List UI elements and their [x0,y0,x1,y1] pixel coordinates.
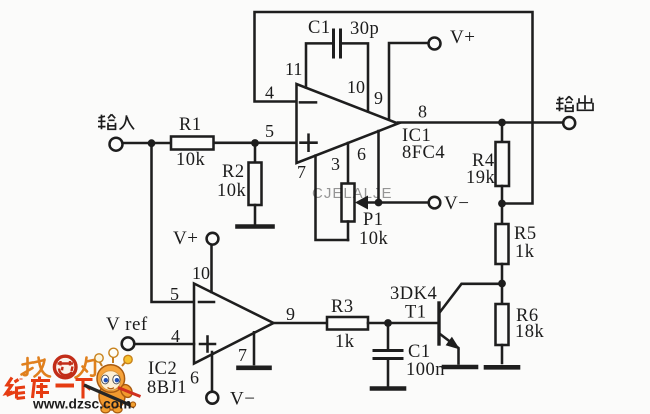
IC2 minus input symbol [199,301,214,304]
IC1 pin 3 wire to P1 top [347,143,350,184]
svg-text:10: 10 [347,77,365,97]
svg-text:R1: R1 [179,115,202,135]
transistor T1 emitter arrow head [446,337,460,350]
watermark logo: red badge circle [54,356,76,378]
svg-text:R3: R3 [331,297,354,317]
svg-text:C1: C1 [308,18,331,38]
resistor R3 [327,317,368,330]
transistor T1 collector [440,284,502,312]
terminal V- (IC2) [206,392,218,404]
IC1 pin 6 wire down to wiper node [377,131,380,203]
IC1 minus input symbol [300,101,316,104]
wire pin 9 to V+ [389,43,427,119]
svg-text:10k: 10k [217,181,247,201]
node R5/R6/collector junction [498,280,506,288]
svg-text:3DK4: 3DK4 [390,284,437,304]
svg-text:8BJ1: 8BJ1 [147,378,187,398]
svg-text:V−: V− [444,193,469,214]
svg-text:CJELALJE: CJELALJE [312,185,393,202]
svg-text:R5: R5 [514,224,537,244]
svg-text:7: 7 [297,162,306,182]
ground of capacitor C1 100n [372,386,404,391]
IC1 plus input symbol [301,141,317,144]
node output/R4 junction [498,119,506,127]
potentiometer P1 body [342,184,355,222]
svg-text:4: 4 [265,83,274,103]
terminal output [563,117,575,129]
resistor R5 [501,204,504,225]
svg-text:V−: V− [230,389,255,410]
svg-text:T1: T1 [405,303,427,323]
resistor R2 [254,143,257,163]
svg-text:4: 4 [171,326,180,346]
svg-text:9: 9 [286,304,295,324]
svg-text:V ref: V ref [106,314,148,335]
svg-text:30p: 30p [350,19,379,39]
watermark logo: outlined text 片 [76,358,97,378]
wire feedback loop top: from R4/R5 node up and across to pin 4 [255,12,533,204]
wire R3 to base node [368,322,438,325]
svg-text:V+: V+ [450,27,475,48]
wire from input junction down to IC2 pin5 [152,143,195,302]
ground of IC2 pin 7 [239,365,270,370]
IC2 pin 6 wire to V- [211,352,214,391]
svg-text:R2: R2 [222,162,245,182]
op-amp U2 IC2 triangle [194,284,274,364]
svg-text:C1: C1 [408,342,431,362]
IC2 pin 4 wire from V ref [136,343,195,346]
svg-text:1k: 1k [335,332,355,352]
capacitor C1 plates [332,30,335,57]
potentiometer P1 wiper arrow head [355,196,368,210]
svg-text:V+: V+ [173,228,198,249]
svg-text:19k: 19k [466,168,496,188]
wire output from pin 8 to output terminal [398,121,563,124]
svg-text:P1: P1 [363,210,384,230]
IC1 pin 7 wire to P1 bottom [316,156,349,240]
svg-text:11: 11 [285,59,302,79]
op-amp U1 IC1 triangle [297,84,399,163]
wire input line from input terminal to pin5 of IC1 [124,142,171,145]
terminal V ref [122,337,135,350]
resistor R4 [501,123,504,143]
svg-text:IC2: IC2 [148,359,177,379]
potentiometer P1 wiper wire to V- terminal [367,201,428,204]
svg-text:10k: 10k [359,229,389,249]
svg-text:6: 6 [190,368,199,388]
terminal input 输入 [110,138,123,151]
watermark logo: mascot [84,348,141,413]
capacitor C1 100n plates [374,349,402,352]
ground of R2 [238,224,273,229]
svg-text:6: 6 [357,144,366,164]
node R3/C-base junction [384,319,392,327]
node P1 wiper / pin 6 junction [375,199,383,207]
IC2 pin 7 wire to ground [253,332,256,364]
svg-text:3: 3 [331,154,340,174]
node input junction [148,139,156,147]
transistor T1 emitter [440,334,459,364]
IC2 pin 10 wire to V+ [210,245,213,292]
svg-text:18k: 18k [515,322,545,342]
terminal V+ (IC2) [207,233,219,245]
capacitor C1 100n leads [387,323,390,350]
transistor Q1 T1 base bar [437,303,440,344]
watermark logo: outlined text 找 [22,358,51,377]
svg-text:7: 7 [238,345,247,365]
label input 输入 [98,114,134,129]
svg-text:100n: 100n [406,360,445,380]
watermark logo: red text 维库一下 [6,377,93,399]
terminal V- (IC1) [429,197,441,209]
node R4/R5 feedback junction [498,200,506,208]
svg-text:9: 9 [374,88,383,108]
ground of T1 emitter [444,365,476,370]
resistor R6 [501,284,504,305]
capacitor C1 30p leads [306,43,331,87]
svg-text:10k: 10k [176,150,206,170]
terminal V+ (IC1) [429,38,441,50]
svg-text:www.dzsc.com: www.dzsc.com [32,397,131,412]
ground of R6 [486,365,518,370]
svg-text:10: 10 [192,263,210,283]
svg-text:5: 5 [170,284,179,304]
svg-text:8FC4: 8FC4 [402,143,445,163]
node R1/R2/pin5 junction [251,139,259,147]
svg-text:5: 5 [265,121,274,141]
svg-text:1k: 1k [515,242,535,262]
svg-text:8: 8 [418,102,427,122]
IC2 plus input symbol [200,343,215,346]
wire IC2 output pin 9 to R3 [273,322,327,325]
label output 输出 [556,95,593,111]
resistor R1 [171,137,214,150]
